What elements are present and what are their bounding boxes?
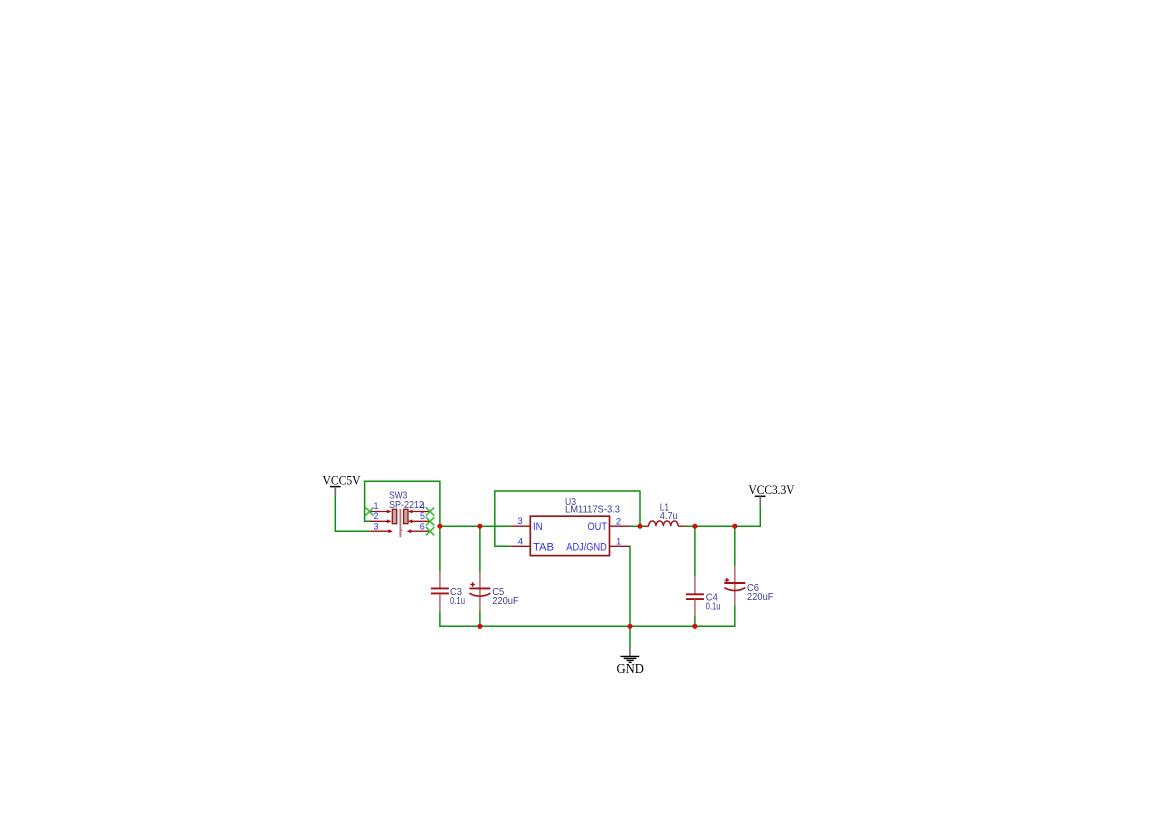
svg-text:OUT: OUT [588,521,608,533]
SW3 pin 1 [369,511,387,513]
wire L1 to VCC3.3V rail [685,506,761,526]
junction node C5 bottom [477,624,482,629]
svg-text:IN: IN [533,521,543,533]
svg-text:TAB: TAB [533,542,554,554]
U3 pin 1 ADJ/GND [610,545,630,547]
no-connect X pin 4 [426,507,434,515]
wire rail down to C5 top [479,526,481,572]
SW3 pin 5 [412,520,430,522]
svg-text:4.7u: 4.7u [660,510,678,522]
wire C4 bottom to ground rail [694,617,696,627]
svg-text:3: 3 [517,516,522,527]
wire U3 ADJ/GND down to ground rail [629,546,630,646]
U3 pin 2 OUT [610,525,630,527]
junction node GND rail [627,624,632,629]
wire VCC5V to SW3 pin 3 [335,496,370,531]
wire SW3 pin2 loop to input rail [365,481,440,526]
capacitor C3 0.1u [431,572,465,611]
svg-text:GND: GND [616,661,644,676]
svg-text:2: 2 [616,516,621,527]
SW3 right contact [404,509,408,523]
capacitor C5 220uF polarized [469,572,518,611]
svg-text:SP-2212: SP-2212 [389,499,424,511]
switch SW3 [365,489,434,537]
svg-text:ADJ/GND: ADJ/GND [566,542,607,554]
wire rail down to C6 top [734,526,736,566]
junction node OUT [637,524,642,529]
junction node C5 top [477,524,482,529]
inductor L1 [645,501,685,526]
regulator U3 LM1117S-3.3 [511,496,630,556]
no-connect X pin 6 [426,527,434,535]
C5 plus sign [470,582,475,586]
wire C5 bottom to ground rail [479,611,481,626]
power flag VCC5V [323,473,362,497]
no-connect X pin 5 [426,517,434,525]
wire rail down to C4 top [694,526,696,576]
SW3 pin 2 [370,520,387,522]
wire U3 OUT to L1 [629,525,646,527]
wire C3 bottom to ground rail [439,611,441,627]
junction node C4 top [692,524,697,529]
svg-text:220uF: 220uF [492,595,519,607]
svg-text:3: 3 [373,522,378,532]
U3 pin 4 TAB [511,545,531,547]
svg-text:VCC3.3V: VCC3.3V [749,482,796,497]
svg-text:4: 4 [518,536,523,547]
C6 plus sign [725,578,730,582]
svg-text:0.1u: 0.1u [450,595,465,607]
junction node SW output [437,524,442,529]
svg-text:6: 6 [420,522,425,532]
U3 pin 3 IN [511,525,531,527]
capacitor C4 0.1u [686,576,721,616]
SW3 pin 3 [370,530,389,532]
wire bottom ground rail [439,625,735,627]
svg-text:LM1117S-3.3: LM1117S-3.3 [565,504,620,516]
capacitor C6 220uF polarized [724,566,773,606]
wire U3 TAB loop over top to OUT node [495,491,640,546]
svg-text:0.1u: 0.1u [706,600,721,612]
wire input rail to U3 IN [440,525,511,527]
SW3 pin 6 [411,530,430,532]
SW3 common pole [399,509,401,537]
svg-text:1: 1 [373,501,378,511]
no-connect X pin 1 [365,507,373,515]
svg-text:220uF: 220uF [747,591,774,603]
SW3 left contact [392,509,396,523]
svg-text:VCC5V: VCC5V [323,473,362,488]
power flag VCC3.3V [749,482,796,507]
wire rail down to C3 top [439,526,441,571]
junction node C6 top [732,524,737,529]
svg-text:2: 2 [373,511,378,521]
svg-text:1: 1 [616,536,621,547]
junction node C4 bottom [692,624,697,629]
U3 body [530,516,609,555]
ground symbol GND [616,646,644,676]
wire C6 bottom to ground rail [734,606,736,628]
svg-text:5: 5 [420,511,425,521]
SW3 pin 4 [412,511,430,513]
